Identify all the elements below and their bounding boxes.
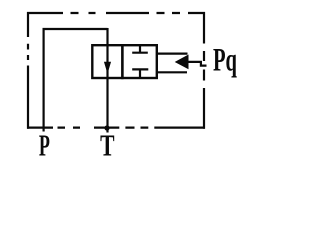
enclosure dashed border: right edge: [203, 12, 205, 129]
wire: valve vertical line (P to T through valve): [106, 28, 108, 133]
pilot tail line to Pq: [187, 62, 207, 66]
svg-text:T: T: [100, 128, 115, 161]
pilot arrowhead (solid, pointing left): [176, 55, 188, 68]
wire: P line top horizontal to valve: [43, 28, 108, 30]
svg-text:P: P: [39, 128, 50, 161]
valve body: right square (blocked position): [122, 45, 156, 78]
blocked port symbol: top T in right square: [132, 45, 148, 53]
pilot channel bottom line: [157, 71, 187, 73]
blocked port symbol: bottom T in right square: [132, 69, 148, 78]
enclosure dashed border: bottom edge: [27, 126, 205, 128]
pilot channel top line: [157, 52, 188, 54]
junction dot at T port on border: [104, 125, 109, 130]
enclosure dashed border: top edge: [27, 12, 205, 14]
valve body: left square (flow position): [92, 45, 122, 78]
svg-text:Pq: Pq: [213, 42, 237, 78]
enclosure dashed border: left edge: [27, 12, 29, 129]
flow arrowhead (down) inside left square: [105, 62, 111, 72]
wire: P line vertical: [42, 29, 44, 132]
